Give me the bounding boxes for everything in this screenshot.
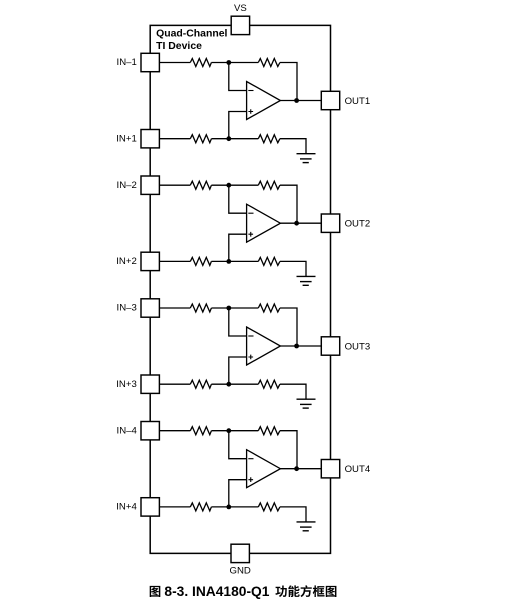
svg-text:IN+3: IN+3 <box>116 379 137 390</box>
svg-text:OUT4: OUT4 <box>345 464 371 475</box>
svg-text:OUT3: OUT3 <box>345 341 371 352</box>
svg-text:IN+1: IN+1 <box>116 133 137 144</box>
svg-text:IN–2: IN–2 <box>117 180 137 191</box>
svg-text:GND: GND <box>230 566 251 577</box>
svg-text:Quad-Channel: Quad-Channel <box>156 29 227 40</box>
svg-text:IN+2: IN+2 <box>116 256 137 267</box>
svg-text:8-3. INA4180-Q1: 8-3. INA4180-Q1 <box>164 584 269 599</box>
svg-text:IN–3: IN–3 <box>117 303 137 314</box>
svg-text:IN–4: IN–4 <box>117 425 138 436</box>
svg-text:OUT1: OUT1 <box>345 96 371 107</box>
svg-text:OUT2: OUT2 <box>345 219 371 230</box>
svg-text:VS: VS <box>234 3 247 14</box>
svg-text:TI Device: TI Device <box>156 41 202 52</box>
svg-text:IN+4: IN+4 <box>116 502 137 513</box>
svg-text:IN–1: IN–1 <box>117 57 137 68</box>
